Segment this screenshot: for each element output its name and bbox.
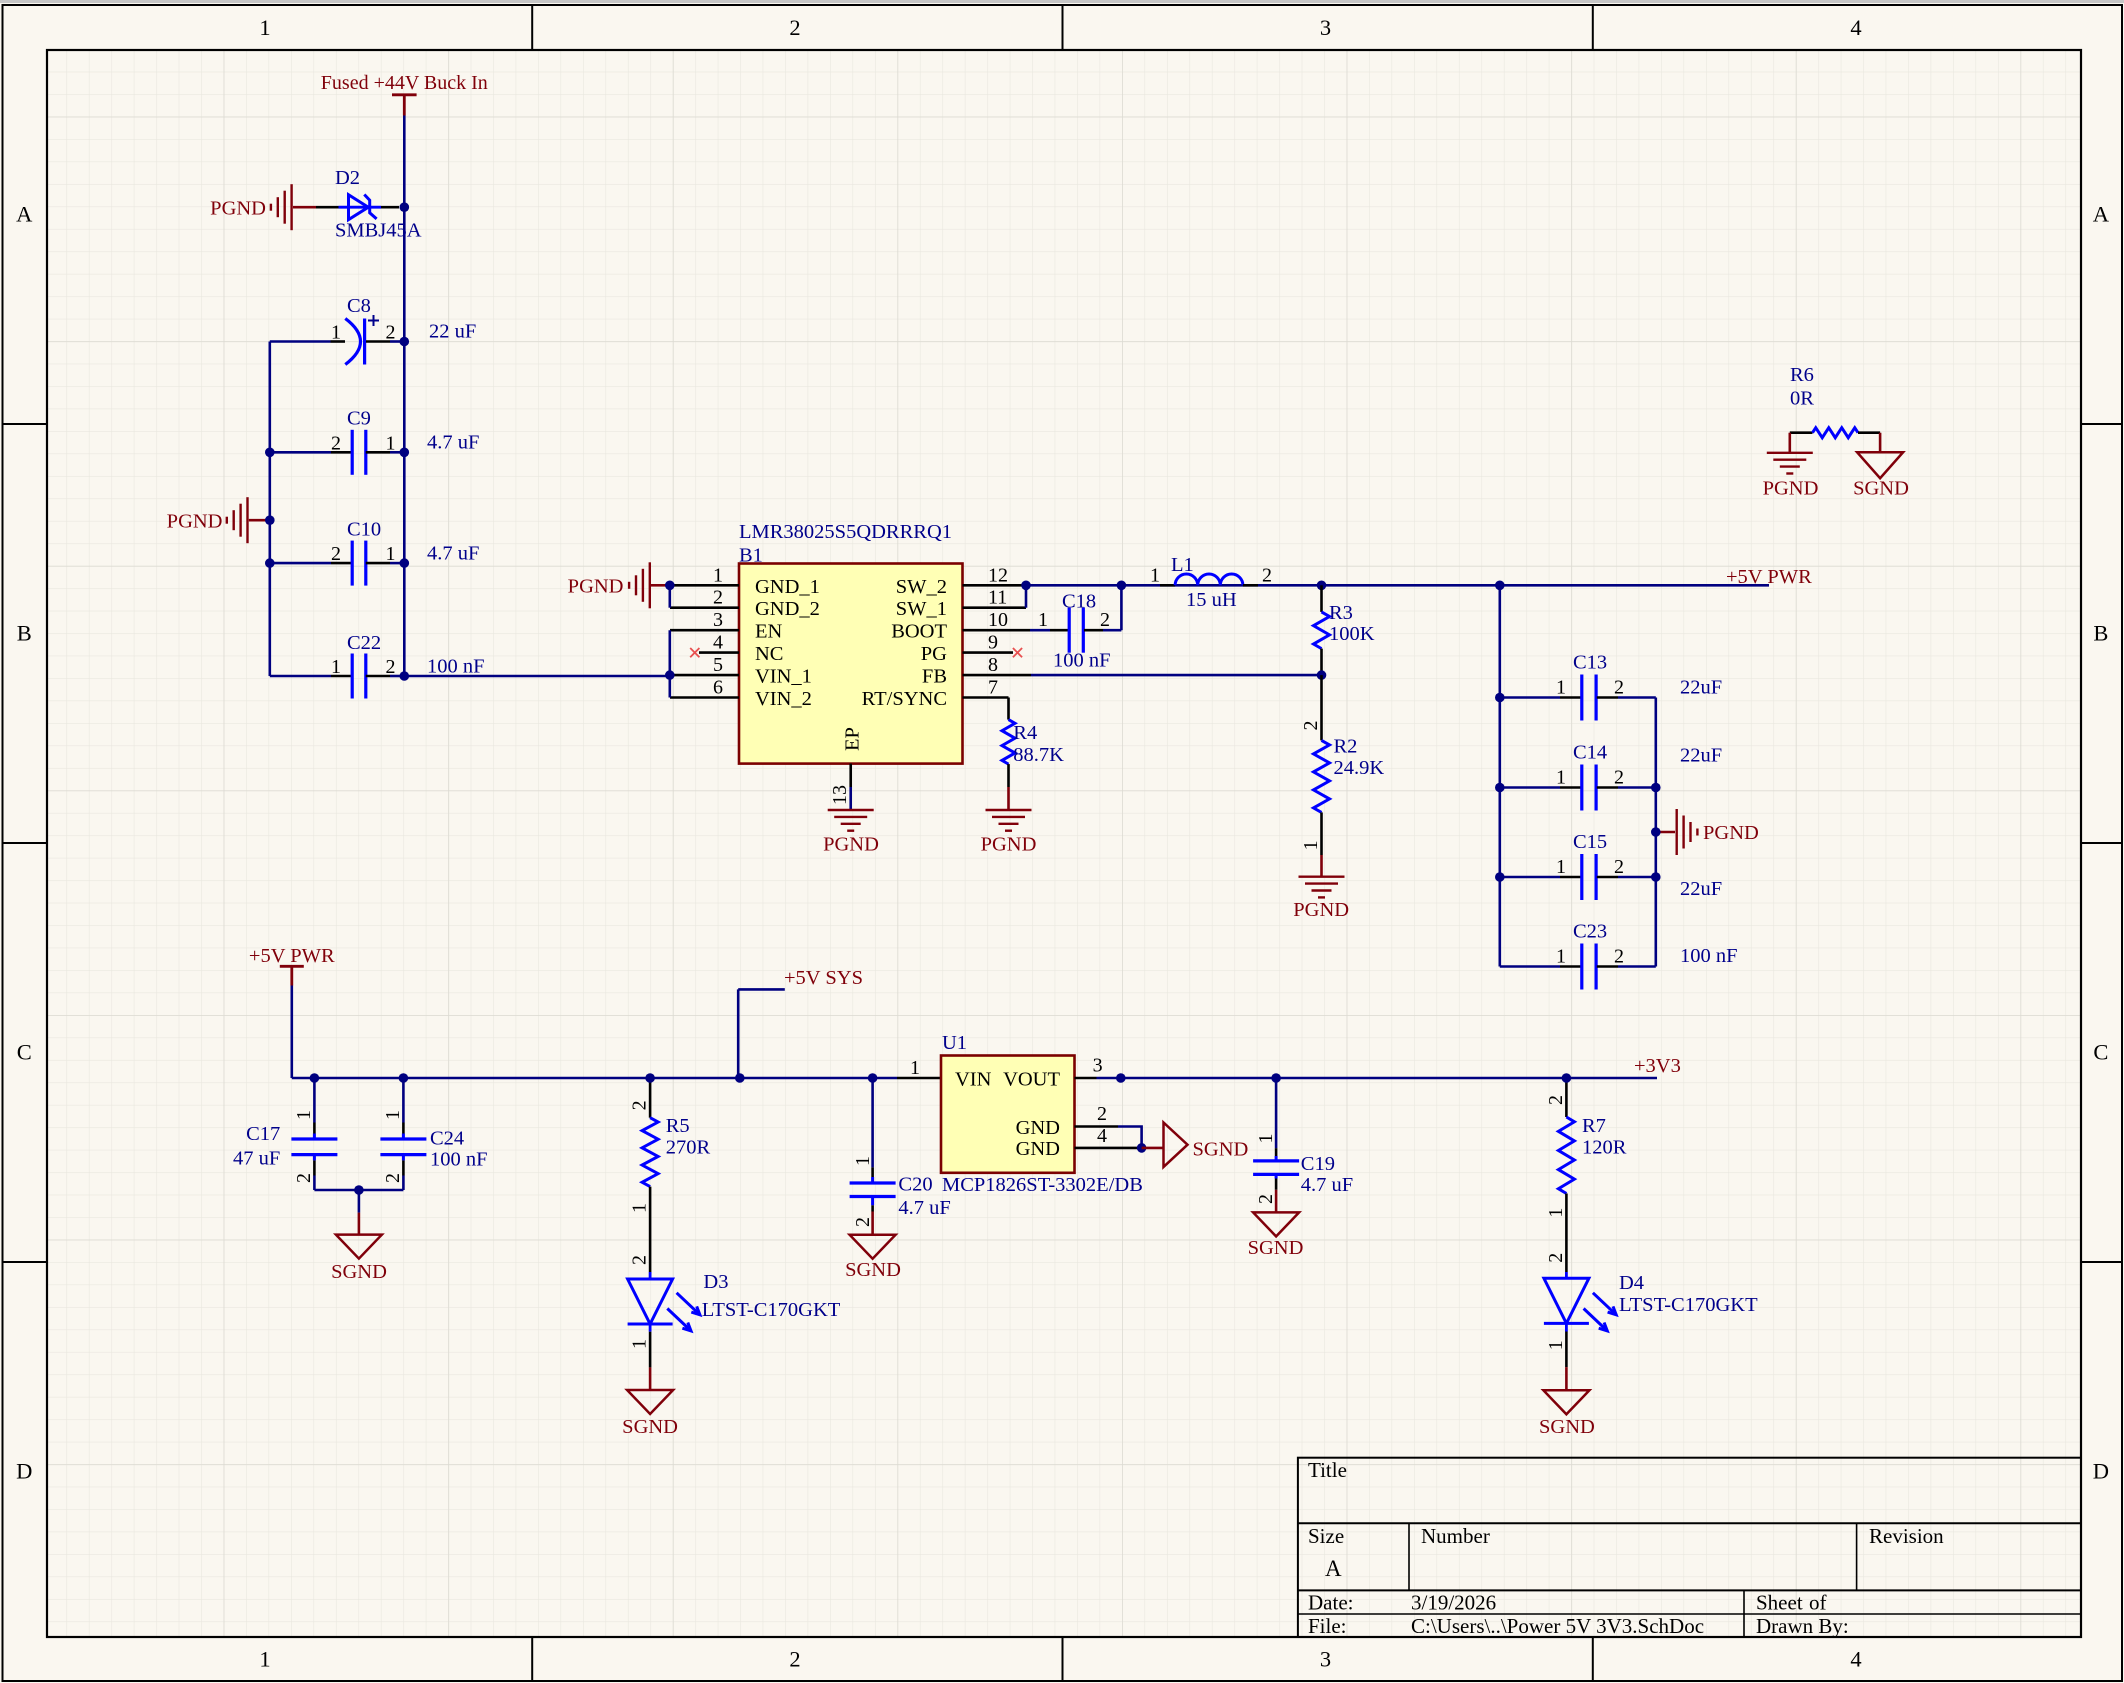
capacitor C20 4.7uF: [850, 1078, 951, 1227]
svg-text:0R: 0R: [1790, 388, 1814, 410]
junction C10 left: [265, 558, 275, 568]
junction C9 right: [400, 448, 410, 458]
svg-text:C:\Users\..\Power 5V 3V3.SchDo: C:\Users\..\Power 5V 3V3.SchDoc: [1411, 1614, 1704, 1638]
svg-text:R5: R5: [666, 1115, 690, 1137]
power ground PGND at R4: [981, 787, 1037, 856]
capacitor C14 22uF: [1500, 742, 1722, 811]
wire FB net: [1031, 674, 1322, 677]
no-connect cross pin 9: [1013, 648, 1022, 657]
svg-text:2: 2: [1545, 1095, 1567, 1105]
svg-text:2: 2: [1255, 1194, 1277, 1204]
svg-text:C8: C8: [347, 295, 371, 317]
svg-text:PGND: PGND: [167, 510, 223, 532]
svg-text:2: 2: [1300, 721, 1322, 731]
svg-text:SW_1: SW_1: [896, 598, 947, 620]
junction L1 out / R3: [1317, 581, 1327, 591]
capacitor C22 100nF: [270, 632, 485, 699]
svg-text:2: 2: [1262, 564, 1272, 586]
svg-text:R3: R3: [1329, 602, 1353, 624]
svg-text:1: 1: [259, 1647, 270, 1672]
capacitor C15 22uF: [1500, 831, 1722, 900]
svg-text:C13: C13: [1573, 652, 1607, 674]
svg-text:NC: NC: [755, 643, 783, 665]
svg-text:D4: D4: [1619, 1272, 1644, 1294]
svg-text:C15: C15: [1573, 831, 1607, 853]
svg-text:SGND: SGND: [331, 1261, 387, 1283]
svg-text:C24: C24: [430, 1128, 464, 1150]
svg-text:22 uF: 22 uF: [429, 321, 476, 343]
junction R5 top: [645, 1073, 655, 1083]
svg-text:22uF: 22uF: [1680, 677, 1722, 699]
svg-text:3: 3: [713, 609, 723, 631]
junction VOUT: [1116, 1073, 1126, 1083]
junction U1 GND: [1137, 1143, 1147, 1153]
junction C15 right: [1651, 872, 1661, 882]
svg-text:100 nF: 100 nF: [427, 656, 485, 678]
svg-text:VIN_1: VIN_1: [755, 666, 812, 688]
svg-text:Title: Title: [1308, 1458, 1347, 1482]
svg-text:C17: C17: [246, 1123, 280, 1145]
svg-text:EP: EP: [842, 727, 864, 751]
svg-text:SMBJ45A: SMBJ45A: [335, 220, 422, 242]
junction B1 pin1: [665, 581, 675, 591]
svg-text:2: 2: [713, 587, 723, 609]
junction VIN_1: [665, 670, 675, 680]
svg-text:2: 2: [386, 656, 396, 678]
svg-text:4.7 uF: 4.7 uF: [427, 542, 479, 564]
svg-text:4.7 uF: 4.7 uF: [1301, 1174, 1353, 1196]
svg-text:2: 2: [331, 432, 341, 454]
svg-text:1: 1: [1556, 767, 1566, 789]
svg-text:15 uH: 15 uH: [1186, 589, 1237, 611]
wire EN to VIN_2 loop: [668, 630, 671, 697]
svg-text:R7: R7: [1582, 1115, 1606, 1137]
svg-text:100 nF: 100 nF: [430, 1149, 488, 1171]
LED D3 LTST-C170GKT: [628, 1255, 841, 1367]
svg-text:7: 7: [988, 677, 998, 699]
svg-text:C10: C10: [347, 518, 381, 540]
svg-text:Fused +44V Buck In: Fused +44V Buck In: [321, 72, 488, 94]
svg-text:1: 1: [1300, 840, 1322, 850]
svg-text:120R: 120R: [1582, 1137, 1627, 1159]
wire +5V rail: [292, 1077, 897, 1080]
junction ground bus: [354, 1185, 364, 1195]
svg-text:1: 1: [386, 432, 396, 454]
svg-text:GND: GND: [1016, 1117, 1060, 1139]
svg-text:5: 5: [713, 654, 723, 676]
svg-text:+5V PWR: +5V PWR: [249, 945, 335, 967]
svg-text:4: 4: [713, 632, 723, 654]
svg-text:+5V PWR: +5V PWR: [1726, 566, 1812, 588]
junction C22 / VIN wire: [400, 671, 410, 681]
svg-text:3: 3: [1320, 1647, 1331, 1672]
IC U1 MCP1826ST-3302E/DB: [897, 1032, 1143, 1196]
junction C20 top: [868, 1073, 878, 1083]
junction +44V / D2: [400, 202, 410, 212]
resistor R7 120R: [1545, 1078, 1627, 1272]
junction C24 top: [399, 1073, 409, 1083]
svg-text:1: 1: [293, 1110, 315, 1120]
wire C17-C24 ground bus: [314, 1189, 403, 1192]
svg-text:100 nF: 100 nF: [1680, 945, 1738, 967]
junction C10 right: [400, 558, 410, 568]
junction C9 left: [265, 448, 275, 458]
svg-text:L1: L1: [1171, 554, 1194, 576]
inductor L1 15uH: [1150, 554, 1272, 611]
junction +5V SYS: [735, 1073, 745, 1083]
junction C13 bus left C15: [1495, 872, 1505, 882]
svg-text:C14: C14: [1573, 742, 1607, 764]
svg-text:R4: R4: [1013, 722, 1037, 744]
svg-text:of: of: [1809, 1591, 1827, 1615]
svg-text:2: 2: [382, 1173, 404, 1183]
svg-text:Number: Number: [1421, 1524, 1490, 1548]
svg-text:2: 2: [789, 1647, 800, 1672]
svg-text:2: 2: [852, 1217, 874, 1227]
svg-text:EN: EN: [755, 621, 783, 643]
svg-text:2: 2: [629, 1255, 651, 1265]
signal ground SGND at D4: [1539, 1367, 1595, 1438]
svg-text:13: 13: [829, 785, 851, 805]
svg-text:47 uF: 47 uF: [233, 1148, 280, 1170]
svg-text:PGND: PGND: [568, 575, 624, 597]
svg-text:100 nF: 100 nF: [1053, 650, 1111, 672]
svg-text:1: 1: [629, 1339, 651, 1349]
svg-text:2: 2: [789, 15, 800, 40]
svg-text:2: 2: [1100, 609, 1110, 631]
resistor R3 100K: [1314, 585, 1375, 675]
power ground PGND at left bus: [167, 497, 266, 543]
svg-text:C: C: [17, 1039, 32, 1064]
power port +5V PWR input: [249, 945, 335, 986]
capacitor C9 4.7uF: [270, 408, 480, 475]
svg-text:GND: GND: [1016, 1138, 1060, 1160]
svg-text:RT/SYNC: RT/SYNC: [862, 688, 947, 710]
svg-text:PGND: PGND: [1763, 478, 1819, 500]
wire +5V switch node: [1026, 584, 1769, 587]
junction C8 / +44V bus: [400, 337, 410, 347]
svg-text:3: 3: [1320, 15, 1331, 40]
wire left bus C8-C22: [268, 342, 271, 677]
svg-text:+3V3: +3V3: [1634, 1055, 1681, 1077]
svg-text:1: 1: [1556, 856, 1566, 878]
wire pin1 to pin2 loop: [668, 585, 671, 607]
svg-text:22uF: 22uF: [1680, 878, 1722, 900]
wire +5V PWR drop: [290, 986, 293, 1079]
junction C17 top: [310, 1073, 320, 1083]
svg-text:U1: U1: [942, 1032, 967, 1054]
svg-text:R2: R2: [1334, 736, 1358, 758]
svg-text:C9: C9: [347, 408, 371, 430]
junction PGND / left bus: [265, 515, 275, 525]
signal ground SGND at D3: [622, 1367, 678, 1438]
svg-text:LTST-C170GKT: LTST-C170GKT: [1619, 1294, 1758, 1316]
svg-text:B: B: [17, 620, 32, 645]
svg-text:C: C: [2093, 1039, 2108, 1064]
svg-text:PGND: PGND: [210, 197, 266, 219]
signal ground SGND at C19: [1248, 1190, 1304, 1259]
IC B1 LMR38025S5QDRRRQ1: [670, 521, 1031, 809]
wire +3V3 rail: [1097, 1077, 1658, 1080]
svg-text:SGND: SGND: [1193, 1139, 1249, 1161]
svg-text:1: 1: [259, 15, 270, 40]
svg-text:2: 2: [1614, 677, 1624, 699]
capacitor C8 22uF polarized: [270, 295, 476, 365]
svg-text:C23: C23: [1573, 921, 1607, 943]
power port Fused +44V Buck In: [321, 72, 488, 116]
svg-text:SW_2: SW_2: [896, 576, 947, 598]
svg-text:2: 2: [386, 322, 396, 344]
svg-text:22uF: 22uF: [1680, 745, 1722, 767]
power ground PGND at R2: [1293, 855, 1349, 921]
svg-text:3: 3: [1093, 1054, 1103, 1076]
svg-text:2: 2: [293, 1173, 315, 1183]
power ground PGND at EP: [823, 810, 879, 856]
power ground PGND at B1 pins 1-2: [568, 562, 666, 608]
capacitor C24 100nF: [380, 1078, 487, 1190]
signal ground SGND at C20: [845, 1212, 901, 1282]
svg-text:1: 1: [331, 656, 341, 678]
wire C22 to B1 VIN: [404, 675, 666, 678]
svg-text:1: 1: [382, 1110, 404, 1120]
svg-text:MCP1826ST-3302E/DB: MCP1826ST-3302E/DB: [942, 1174, 1143, 1196]
capacitor C23 100nF: [1500, 921, 1738, 990]
capacitor C13 22uF: [1500, 652, 1722, 721]
svg-text:VIN: VIN: [955, 1069, 992, 1091]
svg-text:C20: C20: [898, 1174, 932, 1196]
svg-text:2: 2: [1614, 946, 1624, 968]
svg-text:R6: R6: [1790, 364, 1814, 386]
svg-text:11: 11: [988, 587, 1007, 609]
resistor R4 88.7K: [1002, 698, 1064, 788]
junction C13 bus left C14: [1495, 783, 1505, 793]
svg-text:A: A: [1325, 1556, 1342, 1581]
svg-text:1: 1: [629, 1203, 651, 1213]
svg-text:FB: FB: [922, 666, 947, 688]
svg-text:LTST-C170GKT: LTST-C170GKT: [702, 1299, 841, 1321]
svg-text:2: 2: [1614, 856, 1624, 878]
svg-text:1: 1: [1556, 946, 1566, 968]
svg-text:GND_2: GND_2: [755, 598, 820, 620]
svg-text:1: 1: [1556, 677, 1566, 699]
capacitor C17 47uF: [233, 1078, 337, 1190]
svg-text:2: 2: [629, 1100, 651, 1110]
power ground PGND at R6: [1763, 433, 1819, 500]
diode D2 SMBJ45A: [316, 167, 422, 242]
wire output cap right bus: [1655, 698, 1658, 967]
svg-text:Size: Size: [1308, 1524, 1344, 1548]
svg-text:4: 4: [1850, 15, 1861, 40]
svg-text:SGND: SGND: [1248, 1237, 1304, 1259]
svg-text:1: 1: [1545, 1340, 1567, 1350]
svg-text:1: 1: [386, 543, 396, 565]
svg-text:1: 1: [910, 1057, 920, 1079]
junction PGND cap bank: [1651, 827, 1661, 837]
capacitor C19 4.7uF: [1253, 1078, 1353, 1204]
svg-text:1: 1: [331, 322, 341, 344]
junction SW node: [1021, 581, 1031, 591]
signal ground SGND at U1: [1142, 1122, 1249, 1167]
svg-text:Revision: Revision: [1869, 1524, 1944, 1548]
svg-text:4.7 uF: 4.7 uF: [427, 432, 479, 454]
svg-text:9: 9: [988, 632, 998, 654]
svg-text:2: 2: [1097, 1103, 1107, 1125]
svg-text:PGND: PGND: [823, 834, 879, 856]
svg-text:SGND: SGND: [1853, 478, 1909, 500]
junction +5V / C13 bus: [1495, 581, 1505, 591]
svg-text:B: B: [2093, 620, 2108, 645]
svg-text:100K: 100K: [1329, 623, 1375, 645]
svg-text:PGND: PGND: [981, 834, 1037, 856]
resistor R6 0R net tie: [1790, 364, 1880, 438]
svg-text:D: D: [2093, 1458, 2109, 1483]
svg-text:VOUT: VOUT: [1003, 1069, 1060, 1091]
power ground PGND at cap bank: [1656, 809, 1759, 855]
svg-text:1: 1: [1150, 564, 1160, 586]
junction R7 top: [1562, 1073, 1572, 1083]
svg-text:C18: C18: [1062, 591, 1096, 613]
wire output cap left bus: [1499, 585, 1502, 966]
svg-text:1: 1: [1255, 1134, 1277, 1144]
resistor R2 24.9K: [1300, 675, 1384, 855]
svg-text:2: 2: [331, 543, 341, 565]
junction C18 / SW: [1117, 581, 1127, 591]
svg-text:88.7K: 88.7K: [1013, 744, 1064, 766]
svg-text:SGND: SGND: [845, 1259, 901, 1281]
svg-text:8: 8: [988, 654, 998, 676]
svg-text:A: A: [16, 201, 33, 226]
wire GND2 to GND4 loop: [1118, 1127, 1142, 1148]
svg-text:270R: 270R: [666, 1137, 711, 1159]
svg-text:File:: File:: [1308, 1614, 1347, 1638]
resistor R5 270R: [629, 1078, 711, 1272]
svg-text:+5V SYS: +5V SYS: [784, 967, 863, 989]
svg-text:12: 12: [988, 564, 1008, 586]
svg-text:VIN_2: VIN_2: [755, 688, 812, 710]
svg-text:GND_1: GND_1: [755, 576, 820, 598]
svg-text:D: D: [16, 1458, 32, 1483]
svg-text:SGND: SGND: [622, 1416, 678, 1438]
svg-text:Date:: Date:: [1308, 1591, 1353, 1615]
power ground PGND at D2: [210, 184, 316, 230]
svg-text:C22: C22: [347, 632, 381, 654]
svg-text:A: A: [2093, 201, 2110, 226]
capacitor C18 100nF boot: [1030, 585, 1121, 671]
svg-text:24.9K: 24.9K: [1334, 757, 1385, 779]
capacitor C10 4.7uF: [270, 518, 480, 585]
svg-text:4.7 uF: 4.7 uF: [898, 1197, 950, 1219]
signal ground SGND at R6: [1853, 433, 1909, 500]
svg-text:1: 1: [1545, 1208, 1567, 1218]
svg-text:LMR38025S5QDRRRQ1: LMR38025S5QDRRRQ1: [739, 521, 952, 543]
svg-text:10: 10: [988, 609, 1008, 631]
svg-text:1: 1: [852, 1156, 874, 1166]
svg-text:D3: D3: [703, 1271, 728, 1293]
svg-text:PG: PG: [921, 643, 947, 665]
svg-text:Drawn By:: Drawn By:: [1756, 1614, 1849, 1638]
svg-text:D2: D2: [335, 167, 360, 189]
svg-text:Sheet: Sheet: [1756, 1591, 1803, 1615]
no-connect cross pin 4: [690, 648, 699, 657]
junction C13 bus left C13: [1495, 693, 1505, 703]
svg-text:6: 6: [713, 677, 723, 699]
junction C14 right: [1651, 783, 1661, 793]
svg-text:3/19/2026: 3/19/2026: [1411, 1591, 1496, 1615]
svg-text:2: 2: [1545, 1253, 1567, 1263]
junction FB / R3 / R2: [1317, 670, 1327, 680]
svg-text:PGND: PGND: [1293, 899, 1349, 921]
LED D4 LTST-C170GKT: [1544, 1253, 1758, 1367]
svg-text:SGND: SGND: [1539, 1416, 1595, 1438]
svg-text:1: 1: [1038, 609, 1048, 631]
junction C19 top: [1271, 1073, 1281, 1083]
svg-text:BOOT: BOOT: [891, 621, 947, 643]
signal ground SGND at C17/C24: [331, 1190, 387, 1283]
wire SW_2 to SW_1 loop: [1025, 585, 1028, 607]
power port +5V SYS: [738, 967, 863, 1078]
wire +44V vertical bus: [403, 116, 406, 677]
title block: [1298, 1458, 2081, 1638]
svg-text:4: 4: [1097, 1125, 1107, 1147]
svg-text:PGND: PGND: [1703, 822, 1759, 844]
svg-text:4: 4: [1850, 1647, 1861, 1672]
svg-text:2: 2: [1614, 767, 1624, 789]
svg-text:1: 1: [713, 564, 723, 586]
svg-text:C19: C19: [1301, 1153, 1335, 1175]
